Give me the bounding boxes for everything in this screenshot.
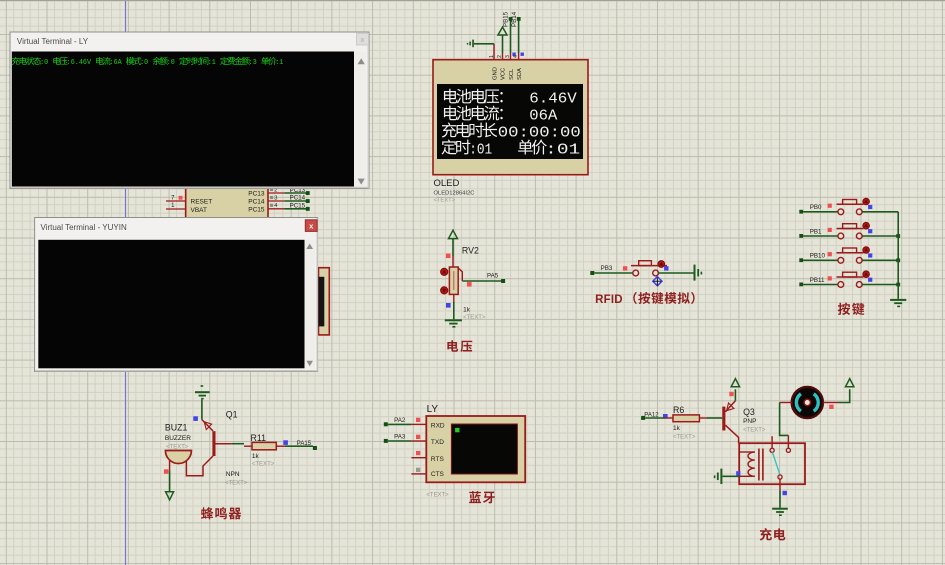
OLED text line3: [442, 123, 457, 138]
blue square RV2 bottom: [446, 303, 451, 308]
gray square CTS: [416, 468, 420, 472]
svg-text:R11: R11: [251, 433, 267, 443]
svg-text:PB14: PB14: [511, 11, 518, 27]
pin 4 stub: [518, 53, 520, 60]
terminal LY green text: [12, 57, 20, 65]
wire PA12 to R6: [645, 417, 665, 419]
svg-text:PNP: PNP: [743, 418, 756, 425]
wire PA5: [462, 280, 503, 282]
wire PB0 to bus: [862, 211, 898, 213]
transistor Q3: [722, 401, 738, 443]
blue square RFID: [664, 266, 668, 270]
terminal PA3: [384, 439, 388, 443]
blue square relay common: [783, 491, 787, 495]
relay contact NO: [787, 435, 789, 448]
svg-text:PA3: PA3: [394, 434, 406, 441]
wire R11 to PA15: [285, 445, 313, 447]
OLED screen: [437, 84, 583, 159]
wire RV2 to ground: [453, 302, 455, 319]
power arrow Q3: [731, 379, 739, 387]
svg-text:PB3: PB3: [601, 265, 613, 272]
wire PC15: [284, 208, 307, 210]
wire Q1 base: [232, 443, 244, 445]
terminal PB0: [799, 210, 803, 214]
ground arrow down: [166, 492, 174, 500]
Virtual Terminal LY window: [10, 32, 369, 189]
red square RTS: [416, 451, 420, 455]
svg-text:PC13: PC13: [248, 191, 265, 198]
resistor R11: [244, 445, 252, 447]
wire PB11 to button: [803, 284, 838, 286]
svg-text:NPN: NPN: [226, 471, 240, 478]
svg-text:PB1: PB1: [810, 228, 822, 235]
svg-text:<TEXT>: <TEXT>: [463, 315, 486, 321]
svg-text:3: 3: [505, 55, 511, 58]
sheet border line: [125, 0, 127, 565]
OLED text line2: [444, 106, 458, 121]
actuate button PB0: [863, 198, 870, 205]
svg-text:SDA: SDA: [517, 68, 523, 80]
RFID actuate button: [658, 261, 665, 268]
BUZ1 left pin: [169, 461, 171, 470]
svg-text:CTS: CTS: [431, 471, 445, 478]
pin stub PC14: [268, 200, 284, 202]
label 按键: [838, 303, 850, 315]
ground RV2: [445, 319, 462, 327]
blue square coil: [736, 471, 740, 475]
blue square PB11: [868, 278, 872, 282]
Virtual Terminal YUYIN window: [35, 218, 318, 372]
svg-text::0: :0: [40, 59, 48, 67]
svg-text:PB11: PB11: [810, 277, 825, 284]
svg-text:RFID: RFID: [595, 294, 623, 306]
pin stub RTS: [411, 457, 426, 459]
pin 7 stub: [166, 200, 186, 202]
RV2 up button: [441, 268, 448, 275]
RV2 top lead: [452, 256, 454, 267]
junction node PB11: [896, 283, 900, 287]
pin stub PC13: [268, 192, 284, 194]
red square PB11: [828, 276, 832, 280]
blue square Q1: [193, 416, 198, 421]
gray square + number pin3: [270, 196, 273, 199]
wire PB10 to button: [803, 259, 838, 261]
junction node PB10: [896, 258, 900, 262]
svg-text:BUZ1: BUZ1: [165, 423, 188, 433]
red square PB0: [828, 204, 832, 208]
relay common pin: [779, 479, 781, 490]
svg-text:PA5: PA5: [487, 272, 499, 279]
svg-text:TXD: TXD: [431, 439, 444, 446]
ground relay: [772, 508, 788, 516]
svg-text:PC14: PC14: [248, 199, 265, 206]
blue square PB10: [868, 253, 872, 257]
svg-text:1k: 1k: [673, 425, 681, 432]
push button RFID: [633, 270, 639, 276]
svg-text::6A: :6A: [110, 59, 123, 67]
logic state blue square pin4: [521, 53, 524, 56]
pin 1 stub: [166, 208, 186, 210]
push button PB0: [838, 209, 844, 215]
svg-text:OLED: OLED: [434, 178, 460, 189]
power arrow RV2: [449, 230, 458, 238]
terminal PB3: [590, 271, 594, 275]
red square motor: [829, 405, 833, 409]
svg-text::0: :0: [167, 59, 175, 67]
svg-text:Virtual Terminal - YUYIN: Virtual Terminal - YUYIN: [41, 223, 127, 232]
svg-text::01: :01: [545, 142, 580, 158]
red square PB10: [828, 252, 832, 256]
terminal PA12: [641, 416, 645, 420]
OLED text line1: [444, 89, 458, 104]
wire VCC: [502, 35, 504, 53]
terminal PA5: [501, 279, 505, 283]
terminal PC14: [306, 199, 310, 203]
svg-text::3: :3: [249, 59, 257, 67]
push button PB11: [838, 282, 844, 288]
wire motor to relay NO: [780, 403, 789, 436]
LY screen green square: [455, 428, 459, 432]
svg-text:PB10: PB10: [810, 253, 826, 260]
svg-text:x: x: [361, 37, 365, 44]
svg-text:VCC: VCC: [501, 68, 507, 80]
wire coil to ground: [722, 475, 739, 477]
svg-text:PA2: PA2: [394, 417, 406, 424]
svg-text:OLED12864I2C: OLED12864I2C: [434, 191, 475, 197]
relay common contact: [778, 475, 782, 479]
red square pin7: [179, 196, 183, 200]
relay switch arm: [773, 452, 781, 475]
wire BUZ1 to ground arrow: [169, 470, 171, 491]
wire relay common to ground: [779, 491, 781, 508]
wire PB3 to button: [594, 272, 633, 274]
svg-text:VBAT: VBAT: [191, 207, 208, 214]
wire PB10 to bus: [862, 259, 898, 261]
relay RL1 body: [739, 443, 805, 484]
motor right lead: [823, 402, 839, 404]
label 蓝牙: [469, 491, 481, 503]
red square PB1: [828, 228, 832, 232]
svg-text:RXD: RXD: [431, 423, 445, 430]
wire key bus: [897, 212, 899, 299]
svg-text:00:00:00: 00:00:00: [498, 125, 581, 141]
svg-text:PC15: PC15: [248, 206, 265, 213]
red square RV2 wiper: [467, 282, 472, 287]
svg-text:RESET: RESET: [191, 199, 213, 206]
LY screen: [451, 424, 517, 474]
wire PB1 to bus: [862, 235, 898, 237]
ground relay coil (rotated): [714, 469, 723, 484]
svg-text:Virtual Terminal - LY: Virtual Terminal - LY: [17, 37, 89, 46]
ground (OLED pin1): [467, 40, 474, 48]
pin stub PC15: [268, 208, 284, 210]
red square Q3: [729, 392, 733, 396]
wire PB1 to button: [803, 235, 838, 237]
wire R6 to Q3: [707, 417, 722, 419]
svg-text:LY: LY: [427, 404, 439, 415]
svg-text:3: 3: [274, 195, 277, 201]
node PB14: [517, 17, 521, 21]
svg-text:06A: 06A: [529, 109, 557, 125]
svg-text:Q3: Q3: [743, 407, 755, 417]
bluetooth module LY body: [426, 416, 525, 482]
buzzer BUZ1: [165, 451, 191, 464]
svg-text:<TEXT>: <TEXT>: [673, 435, 696, 441]
OLED U1 body: [433, 60, 588, 175]
svg-text:6.46V: 6.46V: [529, 92, 577, 108]
svg-text:Q1: Q1: [226, 409, 238, 419]
relay contact NC: [771, 436, 773, 448]
pin 3 stub: [510, 53, 512, 60]
label 充电: [760, 528, 772, 540]
actuate button PB11: [863, 271, 870, 278]
transistor Q1: [186, 420, 231, 476]
svg-text::01: :01: [469, 142, 492, 158]
svg-text:<TEXT>: <TEXT>: [166, 445, 189, 451]
svg-text:R6: R6: [673, 405, 684, 415]
svg-text::1: :1: [208, 59, 217, 67]
svg-text:PC15: PC15: [290, 203, 306, 210]
wire ground to Q1 collector: [201, 399, 203, 419]
RV2 wiper: [458, 268, 462, 281]
crystal fragment right of window: [319, 268, 330, 335]
svg-text:1k: 1k: [463, 307, 471, 314]
terminal PA15: [313, 446, 317, 450]
move cursor icon: [653, 277, 662, 286]
wire Q3 emitter to power: [734, 389, 736, 401]
pin stub CTS: [411, 473, 426, 475]
wire PB14 (SDA): [518, 19, 520, 53]
terminal PB10: [799, 258, 803, 262]
wire PB15 (SCL): [510, 19, 512, 53]
gray square + number pin4: [270, 204, 273, 207]
potentiometer RV2 body: [449, 267, 458, 294]
terminal PC15: [306, 207, 310, 211]
wire PB0 to button: [803, 211, 838, 213]
wire PC13: [284, 192, 307, 194]
power arrow (OLED VCC): [498, 27, 507, 35]
ground buzzer top: [195, 385, 210, 399]
svg-text::0: :0: [140, 59, 148, 67]
blue square PB1: [868, 229, 872, 233]
push button PB10: [838, 257, 844, 263]
actuate button PB10: [863, 247, 870, 254]
power arrow motor: [846, 379, 854, 387]
OLED text line4: [441, 139, 456, 154]
terminal PB11: [799, 283, 803, 287]
ground RFID (rotated): [694, 265, 703, 281]
blue square PB0: [868, 205, 872, 209]
svg-text:SCL: SCL: [509, 68, 515, 80]
MCU U2 partial body: [186, 186, 268, 220]
svg-text:2: 2: [497, 55, 503, 58]
svg-text:1k: 1k: [252, 453, 260, 460]
wire PA3: [388, 440, 412, 442]
pin stub TXD: [411, 440, 426, 442]
svg-text:PB0: PB0: [810, 204, 822, 211]
red square RXD: [416, 418, 420, 422]
wire OLED pin1 to ground: [474, 43, 494, 45]
wire motor to power: [839, 389, 850, 402]
pin 2 stub: [502, 53, 504, 60]
motor M1: [792, 387, 823, 418]
blue square R11: [283, 440, 288, 445]
resistor R6: [665, 417, 673, 419]
wire button to ground: [659, 272, 694, 274]
blue square PA12: [663, 414, 668, 419]
svg-text:PC14: PC14: [290, 195, 306, 202]
pin 1 stub: [493, 44, 495, 60]
red square TXD: [416, 435, 420, 439]
motor left lead: [780, 402, 792, 404]
svg-text:RTS: RTS: [431, 456, 445, 463]
terminal PB1: [799, 234, 803, 238]
svg-text:RV2: RV2: [462, 245, 479, 255]
svg-text::6.46V: :6.46V: [67, 59, 92, 67]
wire PC14: [284, 200, 307, 202]
logic state blue square pin3: [512, 53, 515, 56]
red square RV2 top: [446, 254, 451, 259]
RV2 down button: [441, 287, 448, 294]
ground key bus: [890, 299, 906, 307]
red square RFID: [623, 266, 627, 270]
terminal PC13: [306, 191, 310, 195]
push button PB1: [838, 233, 844, 239]
svg-text:PA15: PA15: [297, 441, 312, 447]
gray square + number pin2: [270, 188, 273, 191]
pin stub RXD: [411, 423, 426, 425]
actuate button PB1: [863, 222, 870, 229]
svg-text:PB15: PB15: [503, 11, 510, 27]
wire RV2 top: [452, 239, 454, 256]
relay coil: [739, 449, 763, 481]
wire PA2: [388, 423, 412, 425]
svg-text:GND: GND: [492, 67, 498, 80]
svg-text:1: 1: [489, 55, 495, 58]
svg-text:<TEXT>: <TEXT>: [743, 427, 766, 433]
svg-text::1: :1: [275, 59, 284, 67]
svg-text:<TEXT>: <TEXT>: [426, 492, 449, 498]
wire PB11 to bus: [862, 284, 898, 286]
svg-text:BUZZER: BUZZER: [165, 435, 191, 442]
RV2 bottom lead: [453, 294, 455, 302]
svg-text:<TEXT>: <TEXT>: [252, 462, 275, 468]
label 蜂鸣器: [201, 507, 213, 519]
red square BUZ1: [164, 469, 169, 474]
label 电压: [447, 340, 458, 352]
svg-text:4: 4: [513, 55, 519, 58]
svg-text:<TEXT>: <TEXT>: [434, 198, 456, 204]
node PB15: [509, 17, 513, 21]
terminal PA2: [384, 422, 388, 426]
svg-text:<TEXT>: <TEXT>: [225, 481, 248, 487]
junction node PB1: [896, 234, 900, 238]
